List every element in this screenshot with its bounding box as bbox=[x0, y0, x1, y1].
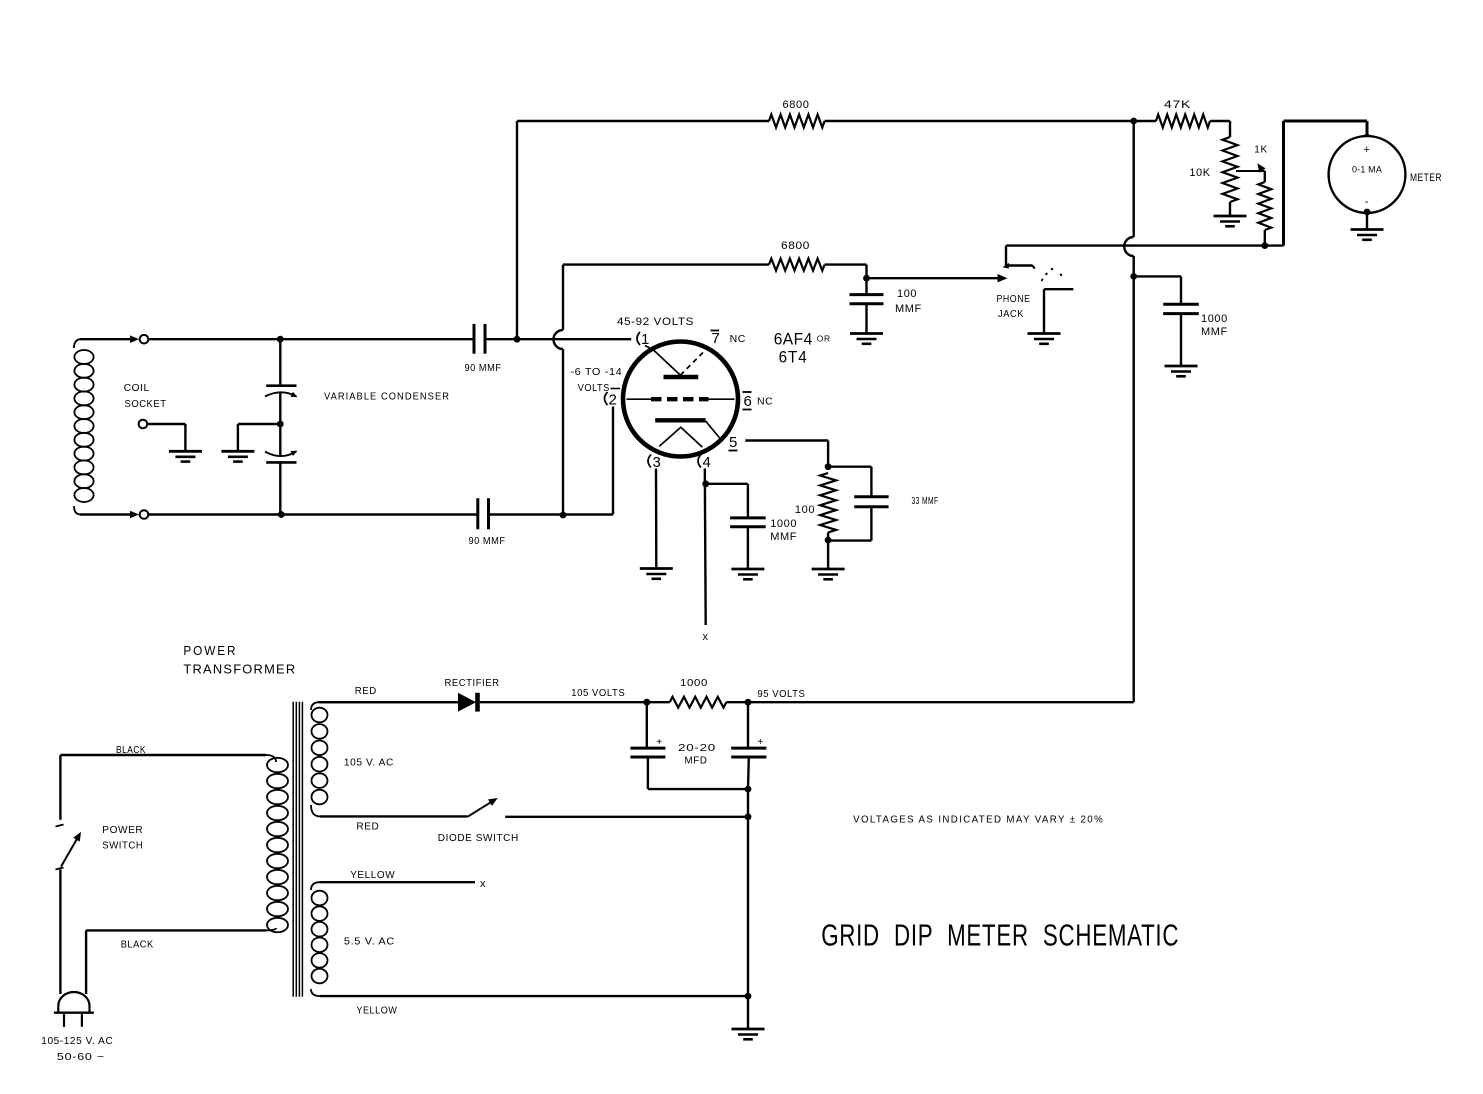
svg-text:10K: 10K bbox=[1189, 167, 1210, 179]
svg-text:TRANSFORMER: TRANSFORMER bbox=[183, 663, 296, 677]
svg-text:VARIABLE CONDENSER: VARIABLE CONDENSER bbox=[324, 391, 450, 403]
svg-text:BLACK: BLACK bbox=[116, 744, 146, 756]
svg-text:METER: METER bbox=[1410, 172, 1442, 184]
svg-text:YELLOW: YELLOW bbox=[356, 1005, 397, 1017]
svg-text:MMF: MMF bbox=[895, 303, 922, 315]
svg-text:+: + bbox=[656, 737, 662, 748]
svg-text:RED: RED bbox=[356, 821, 379, 833]
svg-text:5: 5 bbox=[729, 434, 738, 451]
svg-text:90 MMF: 90 MMF bbox=[469, 535, 506, 547]
svg-text:6: 6 bbox=[744, 393, 753, 410]
svg-text:33 MMF: 33 MMF bbox=[912, 495, 939, 507]
svg-text:105 V. AC: 105 V. AC bbox=[344, 757, 394, 769]
svg-text:2: 2 bbox=[609, 392, 618, 409]
svg-text:COIL: COIL bbox=[124, 382, 150, 394]
svg-text:50-60 ~: 50-60 ~ bbox=[57, 1051, 105, 1063]
svg-text:3: 3 bbox=[653, 454, 662, 471]
svg-text:90 MMF: 90 MMF bbox=[465, 362, 502, 374]
svg-text:VOLTS: VOLTS bbox=[578, 382, 610, 394]
svg-text:NC: NC bbox=[730, 333, 746, 345]
svg-text:0-1 MA: 0-1 MA bbox=[1352, 165, 1382, 176]
svg-text:105-125 V. AC: 105-125 V. AC bbox=[41, 1035, 113, 1047]
svg-text:1000: 1000 bbox=[680, 677, 708, 689]
svg-text:x: x bbox=[480, 878, 486, 890]
svg-text:100: 100 bbox=[795, 504, 815, 516]
svg-text:5.5 V. AC: 5.5 V. AC bbox=[344, 936, 395, 948]
svg-text:DIODE SWITCH: DIODE SWITCH bbox=[438, 832, 519, 844]
svg-text:-6 TO -14: -6 TO -14 bbox=[570, 366, 622, 378]
svg-text:RED: RED bbox=[355, 685, 377, 697]
svg-text:MMF: MMF bbox=[770, 531, 797, 543]
svg-text:45-92 VOLTS: 45-92 VOLTS bbox=[617, 316, 694, 328]
svg-text:+: + bbox=[757, 737, 763, 748]
svg-text:MMF: MMF bbox=[1201, 326, 1228, 338]
svg-text:NC: NC bbox=[757, 396, 773, 408]
svg-text:OR: OR bbox=[817, 334, 831, 344]
svg-text:VOLTAGES AS INDICATED MAY VARY: VOLTAGES AS INDICATED MAY VARY ± 20% bbox=[853, 814, 1104, 826]
svg-text:1000: 1000 bbox=[770, 518, 797, 530]
svg-text:PHONE: PHONE bbox=[997, 294, 1031, 305]
svg-text:MFD: MFD bbox=[685, 755, 708, 767]
svg-text:-: - bbox=[1365, 196, 1369, 208]
svg-text:105 VOLTS: 105 VOLTS bbox=[571, 687, 625, 699]
svg-text:1K: 1K bbox=[1254, 145, 1267, 156]
svg-text:x: x bbox=[702, 631, 708, 643]
svg-text:6800: 6800 bbox=[781, 240, 810, 252]
svg-text:GRID DIP METER SCHEMATIC: GRID DIP METER SCHEMATIC bbox=[821, 917, 1179, 952]
svg-text:1000: 1000 bbox=[1201, 313, 1228, 325]
svg-text:20-20: 20-20 bbox=[678, 742, 716, 754]
svg-text:100: 100 bbox=[897, 288, 917, 300]
svg-text:SOCKET: SOCKET bbox=[125, 398, 167, 410]
svg-text:6800: 6800 bbox=[783, 99, 810, 111]
svg-text:RECTIFIER: RECTIFIER bbox=[445, 677, 500, 689]
svg-text:6T4: 6T4 bbox=[779, 349, 808, 367]
svg-text:95 VOLTS: 95 VOLTS bbox=[757, 688, 805, 700]
svg-text:BLACK: BLACK bbox=[121, 939, 154, 951]
svg-text:+: + bbox=[1363, 144, 1370, 156]
svg-text:6AF4: 6AF4 bbox=[774, 331, 813, 349]
svg-text:47K: 47K bbox=[1164, 99, 1191, 111]
svg-text:4: 4 bbox=[703, 454, 712, 471]
svg-text:YELLOW: YELLOW bbox=[350, 869, 395, 881]
svg-text:POWER: POWER bbox=[183, 644, 237, 658]
svg-text:7: 7 bbox=[712, 330, 721, 347]
svg-text:POWER: POWER bbox=[102, 824, 143, 836]
svg-text:JACK: JACK bbox=[998, 309, 1024, 320]
svg-text:SWITCH: SWITCH bbox=[102, 840, 143, 852]
